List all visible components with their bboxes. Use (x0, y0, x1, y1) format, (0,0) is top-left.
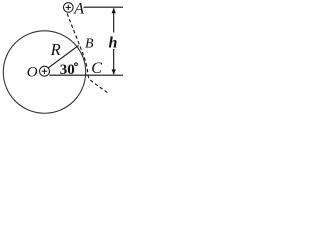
svg-text:30: 30 (60, 62, 75, 78)
svg-text:R: R (50, 40, 61, 59)
svg-text:O: O (27, 65, 38, 81)
svg-text:h: h (109, 34, 118, 51)
svg-text:B: B (85, 37, 94, 52)
svg-text:A: A (73, 0, 84, 17)
svg-text:C: C (91, 60, 102, 77)
